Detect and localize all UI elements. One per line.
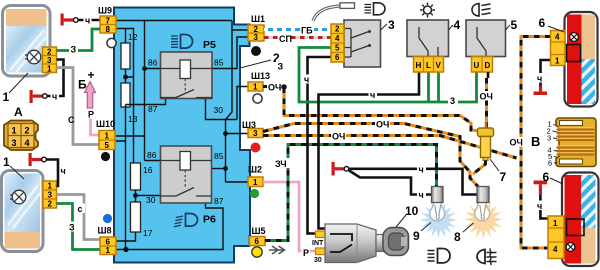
wire: R16-R17 node to P6-30	[133, 190, 160, 202]
wire ч from item6-top to ground	[536, 60, 551, 86]
svg-text:3: 3	[12, 138, 17, 148]
node: green dot below Ш2	[250, 189, 259, 198]
svg-text:1: 1	[553, 219, 558, 228]
svg-text:86: 86	[148, 58, 158, 68]
symbol: arrows near Ш5	[269, 246, 285, 254]
svg-text:INT: INT	[312, 240, 324, 247]
node: black dot left margin	[101, 152, 110, 161]
svg-text:2: 2	[48, 200, 53, 209]
relay P6	[146, 146, 224, 206]
svg-text:З: З	[278, 62, 284, 72]
connector Ш13	[248, 71, 270, 92]
node: black dot below Ш1	[251, 46, 261, 56]
connector Ш2	[248, 165, 263, 188]
node: red dot below Ш3	[251, 143, 261, 153]
svg-text:3: 3	[388, 18, 395, 32]
icon: stalk lever	[313, 3, 355, 21]
svg-text:V: V	[436, 61, 442, 70]
wire ГБ	[264, 25, 331, 36]
svg-text:9: 9	[413, 229, 420, 243]
wire ОЧ O2 from Ш3	[263, 119, 478, 187]
indicator lamp 8 (orange glow)	[464, 187, 503, 240]
label 9 leader	[413, 223, 431, 244]
svg-text:4: 4	[335, 34, 340, 43]
wire С headlamp2 to Ш8-6	[57, 195, 101, 240]
svg-text:85: 85	[214, 58, 224, 68]
wire: P6-85 to bus	[212, 166, 228, 171]
resistor 12	[121, 32, 138, 69]
svg-text:Р: Р	[303, 248, 309, 258]
ground (bottom left)	[29, 153, 47, 166]
battery + arrow Б	[78, 68, 96, 108]
svg-text:Ш13: Ш13	[251, 71, 270, 81]
svg-text:30: 30	[214, 105, 224, 115]
svg-text:1: 1	[3, 155, 10, 169]
switch 4 (light switch)	[407, 20, 449, 57]
connector Ш3	[242, 120, 263, 138]
connector Ш8	[98, 226, 117, 256]
label 1 (bottom headlamp)	[3, 155, 24, 179]
svg-text:ч: ч	[85, 16, 90, 26]
wire: Ш13-1 into box	[237, 87, 248, 120]
relay P5	[148, 52, 224, 115]
label 7 leader	[490, 159, 507, 184]
label 3 leader	[381, 18, 396, 32]
svg-text:7: 7	[500, 170, 507, 184]
ground (right top)	[534, 86, 548, 95]
wire ЗЧ to lamp 9	[265, 145, 437, 241]
svg-text:ОЧ: ОЧ	[480, 92, 493, 102]
svg-text:В: В	[531, 134, 540, 149]
svg-text:1: 1	[47, 64, 52, 73]
svg-text:17: 17	[143, 228, 153, 238]
svg-text:ОЧ: ОЧ	[268, 83, 281, 93]
svg-text:5: 5	[511, 18, 518, 32]
svg-text:Ш10: Ш10	[96, 119, 115, 129]
svg-text:6: 6	[539, 16, 546, 30]
icon: high beam (bottom, under lamp 9)	[428, 249, 451, 263]
wire: P5-85 up to Ш1-3	[212, 37, 248, 69]
svg-text:1: 1	[3, 90, 10, 104]
svg-text:Р: Р	[88, 110, 94, 120]
svg-text:ч: ч	[537, 201, 542, 211]
svg-text:З: З	[69, 223, 75, 233]
svg-text:30: 30	[146, 195, 156, 205]
svg-text:ГБ: ГБ	[301, 26, 313, 36]
resistor 16	[131, 163, 153, 190]
svg-text:2: 2	[25, 126, 30, 136]
label 6 (bottom)	[543, 170, 564, 184]
node: white circle below Ш13	[253, 94, 262, 103]
svg-text:4: 4	[454, 18, 461, 32]
wire: P5-87 to resistor column	[126, 99, 166, 105]
wire: Ш10-1 to bus	[116, 135, 145, 137]
connector of headlamp 1 top	[43, 47, 57, 73]
wire ОЧ O1 from Ш13	[263, 83, 480, 132]
wire ч ground to lamp 9	[349, 171, 432, 201]
svg-text:Р6: Р6	[203, 214, 216, 226]
svg-text:3: 3	[253, 129, 258, 138]
rear lamp 6 (top right)	[565, 12, 598, 107]
svg-text:ч: ч	[61, 166, 66, 176]
svg-text:4: 4	[25, 138, 30, 148]
connector Ш5	[250, 226, 266, 246]
wire: R17 bottom to Ш8-6	[116, 232, 136, 241]
svg-text:ч: ч	[370, 90, 375, 100]
svg-text:8: 8	[106, 25, 111, 34]
wire ч from switch3-6 to ignition INT	[303, 57, 332, 234]
wire: R13 bottom column down to bottom junction	[116, 105, 126, 250]
node: blue dot	[103, 214, 112, 223]
icon: fog lamp (top)	[472, 4, 491, 17]
svg-text:4: 4	[555, 33, 560, 42]
wire ОЧ right bus (item6 top to item6 bottom)	[509, 37, 551, 249]
ground (right bottom)	[534, 181, 548, 195]
connector Ш1	[248, 14, 265, 42]
wire: bus to Ш2-1	[226, 181, 249, 183]
svg-text:10: 10	[405, 204, 419, 218]
svg-text:3: 3	[450, 96, 455, 106]
svg-text:Ш8: Ш8	[98, 226, 112, 236]
svg-text:ч: ч	[52, 92, 57, 102]
wire: pin Ш9-8 down to resistor 16	[116, 29, 134, 164]
wire З from switch3-5 to switches 4,5	[276, 48, 477, 107]
wire: right interior bus	[226, 21, 249, 183]
svg-text:Ш1: Ш1	[251, 14, 265, 24]
svg-text:1: 1	[48, 182, 53, 191]
svg-text:ЗЧ: ЗЧ	[275, 159, 287, 169]
wire ч headlamp2	[46, 160, 65, 187]
svg-text:ч: ч	[419, 190, 424, 200]
svg-text:3: 3	[254, 33, 259, 42]
label 2 leader	[240, 51, 280, 68]
node: junction at 86 bus	[142, 66, 147, 71]
wire: resistor 12-13 chain with branch	[126, 69, 134, 83]
switch 5 (fog switch)	[466, 20, 506, 57]
wire З headlamp2 to Ш8-1	[57, 204, 101, 250]
svg-text:U: U	[474, 61, 480, 70]
headlamp 1 (bottom left)	[2, 171, 44, 252]
svg-text:1: 1	[105, 132, 110, 141]
node: yellow circle below Ш5	[252, 247, 262, 257]
svg-text:с: с	[78, 204, 83, 214]
svg-text:ОЧ: ОЧ	[332, 132, 345, 142]
svg-text:1: 1	[253, 83, 258, 92]
svg-text:6: 6	[255, 237, 260, 246]
svg-text:5: 5	[335, 44, 340, 53]
connector of item6 bottom	[548, 216, 564, 259]
wire З headlamp1 to Ш9-8	[57, 29, 101, 55]
icon: fog beam P6	[174, 214, 216, 227]
svg-text:+: +	[88, 68, 95, 82]
wire ч ground to lamp 8	[349, 164, 477, 195]
label 5 leader	[506, 18, 518, 32]
headlamp 1 (top left)	[3, 6, 51, 77]
label 4 leader	[449, 18, 461, 32]
svg-text:1: 1	[253, 178, 258, 187]
svg-text:Ш2: Ш2	[248, 165, 262, 175]
svg-text:ч: ч	[304, 75, 309, 85]
ground (top left)	[61, 14, 101, 26]
svg-text:Ш5: Ш5	[252, 226, 266, 236]
label 10 leader	[396, 204, 419, 227]
resistor 13	[121, 83, 138, 124]
svg-text:6: 6	[335, 53, 340, 62]
wire: branch to Ш3-3	[223, 131, 248, 136]
wire СП	[264, 34, 331, 45]
svg-text:6: 6	[543, 170, 550, 184]
svg-text:2: 2	[335, 25, 340, 34]
svg-text:85: 85	[214, 151, 224, 161]
icon: fog lamp (bottom, under lamp 8)	[477, 249, 497, 266]
wire: P5-30 down right to bus	[206, 99, 238, 120]
svg-text:3: 3	[48, 191, 53, 200]
switch 3 (column switch)	[344, 20, 381, 67]
wire ч from switch4-H to ignition body	[319, 72, 420, 229]
svg-text:3: 3	[547, 134, 551, 143]
svg-text:8: 8	[454, 230, 461, 244]
wire С headlamp1 to Ш10-5	[57, 68, 100, 145]
wire Р pink to ignition	[263, 182, 316, 258]
icon: high beam (top)	[365, 3, 386, 15]
svg-text:1: 1	[106, 246, 111, 255]
svg-text:Ш9: Ш9	[98, 6, 112, 16]
label 6 (top)	[539, 16, 565, 32]
connector pins of switch 5	[472, 57, 493, 73]
wire ч headlamp1 to ground	[47, 60, 64, 102]
svg-text:1: 1	[12, 126, 17, 136]
svg-text:6: 6	[548, 159, 552, 168]
wire: Ш8-1 across bottom up to P6-87	[116, 203, 223, 252]
svg-text:4: 4	[553, 245, 558, 254]
wire: resistor 12 top stub	[125, 29, 127, 44]
connector Ш9	[98, 6, 116, 34]
svg-text:С: С	[68, 115, 75, 125]
node: junction between R12 R13	[123, 75, 128, 80]
svg-text:H: H	[416, 61, 422, 70]
svg-text:ч: ч	[419, 165, 424, 175]
rear lamp 6 (bottom right)	[562, 173, 599, 267]
wire: bus down to P5-86 and P6-86	[145, 21, 161, 161]
svg-text:87: 87	[148, 104, 158, 114]
svg-text:СП: СП	[279, 34, 292, 44]
connector of headlamp 1 bottom	[43, 181, 57, 209]
wire ч item6 bottom	[536, 195, 549, 219]
svg-text:ОЧ: ОЧ	[510, 138, 523, 148]
icon: low beam P5	[171, 35, 216, 52]
svg-text:D: D	[485, 61, 491, 70]
svg-text:З: З	[71, 45, 77, 55]
ground (second, left)	[30, 90, 48, 103]
indicator lamp 9 (blue glow)	[420, 187, 457, 239]
resistor 17	[131, 202, 153, 238]
svg-text:86: 86	[147, 150, 157, 160]
wire: fuse bottom to lamp 8	[473, 161, 486, 175]
label 8 leader	[454, 223, 474, 244]
svg-text:ч: ч	[537, 74, 542, 84]
svg-text:16: 16	[143, 165, 153, 175]
icon: sun	[420, 3, 435, 18]
svg-text:Р5: Р5	[203, 39, 216, 51]
svg-text:А: А	[14, 105, 23, 119]
node: white circle below Ш9	[107, 38, 116, 47]
svg-text:5: 5	[105, 141, 110, 150]
connector pins of switch 4	[414, 57, 444, 73]
fuse 7	[478, 122, 494, 161]
connector Ш10	[96, 119, 115, 150]
wire ОЧ from switch5-D to fuse	[479, 72, 494, 128]
svg-text:87: 87	[214, 196, 224, 206]
wire: bus from pin Ш9-7 across box top	[116, 20, 232, 22]
ignition switch 10	[312, 224, 409, 264]
mounting block 2 (blue box body)	[114, 8, 250, 263]
connector А	[4, 105, 38, 150]
ground (middle)	[332, 162, 349, 176]
wire ОЧ O3 from Ш3 to right bus	[263, 131, 517, 158]
svg-text:1: 1	[555, 57, 560, 66]
svg-text:30: 30	[314, 257, 322, 264]
connector of item6 top	[551, 31, 566, 66]
wire Р to Ш10-1	[87, 108, 100, 135]
label 1 (top headlamp)	[3, 73, 29, 104]
svg-text:ОЧ: ОЧ	[376, 120, 389, 130]
svg-text:L: L	[426, 61, 431, 70]
connector pins of switch 3	[331, 24, 344, 62]
connector В	[531, 118, 596, 168]
